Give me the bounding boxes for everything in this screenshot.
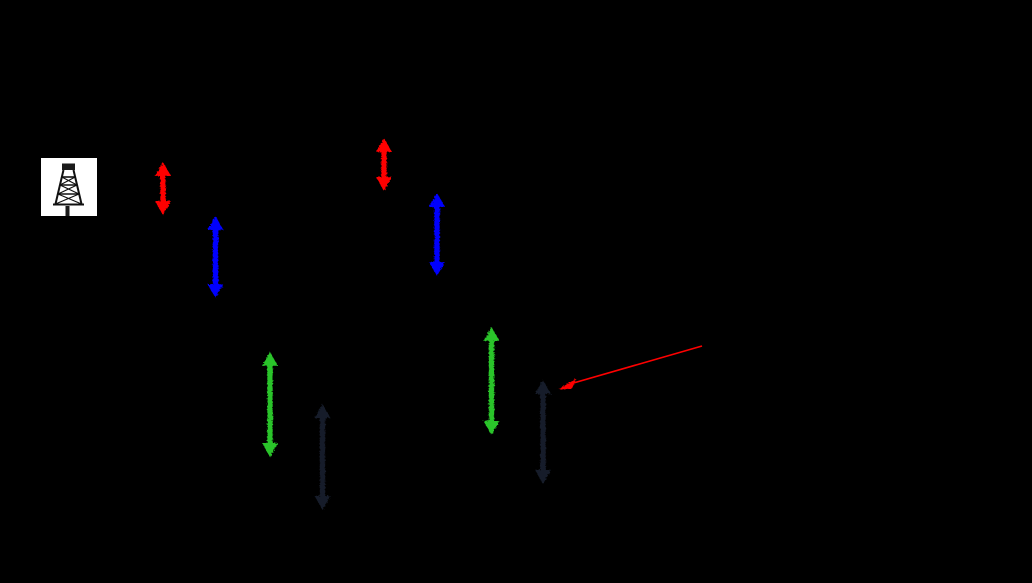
- arrow red right (KB elevation offset well): [376, 138, 392, 191]
- oil derrick U1: [53, 164, 84, 217]
- svg-text:MSL: MSL: [105, 289, 136, 306]
- mean sea level line MSL: [30, 297, 700, 299]
- arrow blue left (GL to MSL): [208, 216, 224, 298]
- arrow dark left (TVD): [315, 404, 331, 510]
- annotation arrow red (points to dark right arrow top): [559, 346, 702, 390]
- derrick icon white box: [41, 158, 97, 216]
- arrow red left (KB elevation): [155, 162, 171, 215]
- arrow dark right (TVD offset): [535, 380, 551, 484]
- svg-text:Top reservoir: Top reservoir: [706, 337, 793, 354]
- datum line RT/KB (black, underlying diagram): [30, 161, 560, 163]
- arrow green right (TVDSS offset): [484, 327, 500, 435]
- reservoir top line: [200, 456, 700, 458]
- arrow blue right: [429, 193, 445, 276]
- ground level line GL: [30, 214, 560, 216]
- svg-text:RT: RT: [105, 153, 125, 170]
- arrow green left (TVDSS): [262, 352, 278, 457]
- svg-text:GL: GL: [105, 206, 125, 223]
